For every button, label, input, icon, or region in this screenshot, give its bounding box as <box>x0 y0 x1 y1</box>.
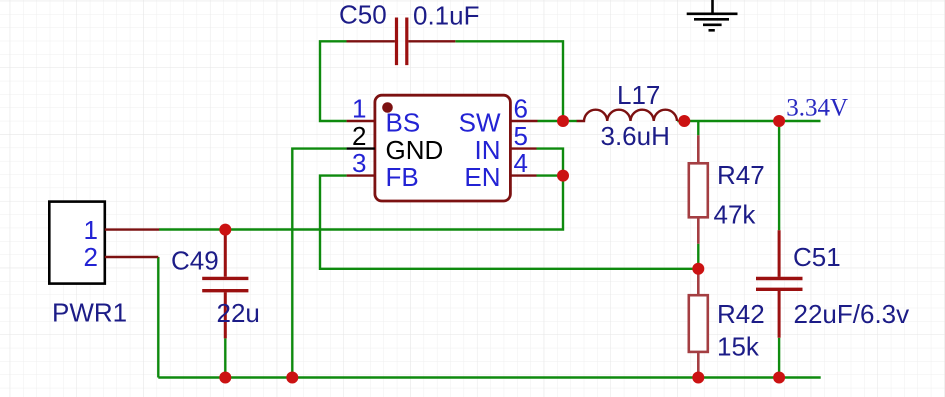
wire pin4 EN to IN rail <box>537 174 564 176</box>
svg-text:SW: SW <box>459 107 501 137</box>
capacitor C50 <box>347 18 456 66</box>
wire C51 top <box>778 121 780 230</box>
junction at C51 top tap <box>773 115 785 127</box>
svg-text:C49: C49 <box>171 246 219 276</box>
wire R47 bottom to midpoint node <box>697 244 699 269</box>
connector PWR1 <box>49 202 159 284</box>
junction at EN tap <box>557 170 569 182</box>
junction at C49 top <box>219 224 231 236</box>
junction at divider midpoint <box>692 263 704 275</box>
svg-text:R47: R47 <box>717 160 765 190</box>
pin 4 EN <box>464 148 536 192</box>
wire SW node to L17 <box>563 120 577 122</box>
wire FB net: pin3 to divider midpoint <box>320 176 698 269</box>
svg-text:2: 2 <box>352 121 366 151</box>
svg-text:BS: BS <box>386 107 421 137</box>
junction at GND rail bottom <box>286 372 298 384</box>
wire GND net: pin2 down to bottom rail <box>292 149 346 378</box>
svg-text:2: 2 <box>84 242 98 272</box>
svg-text:3: 3 <box>352 148 366 178</box>
svg-text:L17: L17 <box>617 80 660 110</box>
wire IN net: pin5 to PWR1 pin1 <box>159 149 563 230</box>
svg-text:1: 1 <box>84 215 98 245</box>
svg-text:FB: FB <box>386 162 419 192</box>
ground <box>687 0 738 30</box>
wire R47 top stub <box>697 121 699 135</box>
svg-text:6: 6 <box>514 94 528 124</box>
wire bottom ground rail <box>158 376 820 378</box>
svg-text:22u: 22u <box>217 298 260 328</box>
svg-text:C50: C50 <box>339 0 387 30</box>
junction at C51 bottom <box>773 372 785 384</box>
wire L17 to 3.34V rail <box>677 120 820 122</box>
svg-text:5: 5 <box>514 121 528 151</box>
wire pin6 SW to node <box>538 120 564 122</box>
op-amp U1 regulator IC body <box>375 95 511 201</box>
resistor R47 <box>689 135 708 243</box>
svg-text:3.6uH: 3.6uH <box>601 121 670 151</box>
pin 5 IN <box>475 121 537 165</box>
wire PWR1 pin2 down <box>157 257 159 378</box>
pin 3 FB <box>347 148 419 192</box>
svg-text:GND: GND <box>386 135 444 165</box>
svg-text:47k: 47k <box>714 199 757 229</box>
pin 6 SW <box>459 94 538 138</box>
junction at C49 bottom <box>219 372 231 384</box>
svg-text:3.34V: 3.34V <box>786 94 848 121</box>
svg-text:PWR1: PWR1 <box>52 298 127 328</box>
wire BS net: pin1 to C50 left <box>320 41 347 121</box>
svg-text:1: 1 <box>352 94 366 124</box>
svg-text:EN: EN <box>464 162 500 192</box>
wire C51 bottom <box>778 338 780 378</box>
svg-text:4: 4 <box>514 148 528 178</box>
junction at SW node <box>557 115 569 127</box>
pin 2 GND <box>347 121 444 165</box>
wire C50 right to SW node <box>455 41 563 121</box>
capacitor C49 <box>202 230 248 339</box>
svg-text:0.1uF: 0.1uF <box>413 0 480 30</box>
svg-text:15k: 15k <box>717 332 760 362</box>
pin 1 BS <box>347 94 421 138</box>
svg-text:C51: C51 <box>793 242 841 272</box>
svg-text:IN: IN <box>475 135 501 165</box>
junction at R42 bottom <box>692 372 704 384</box>
junction at L17 output <box>678 115 690 127</box>
resistor R42 <box>689 269 708 378</box>
wire C49 bottom <box>224 338 226 377</box>
capacitor C51 <box>756 230 803 337</box>
svg-text:R42: R42 <box>717 299 765 329</box>
inductor L17 <box>577 110 677 121</box>
svg-text:22uF/6.3v: 22uF/6.3v <box>794 299 910 329</box>
